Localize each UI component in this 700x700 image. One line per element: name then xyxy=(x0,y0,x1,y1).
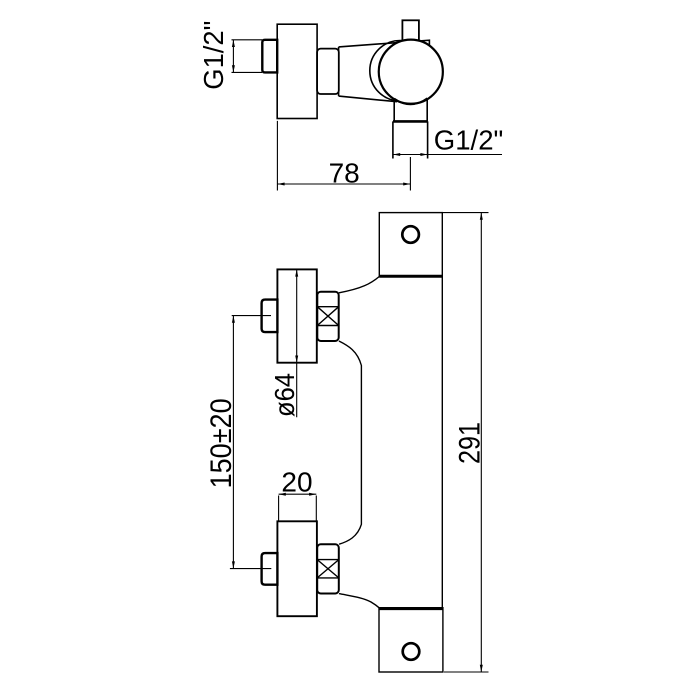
dimension 20: extension lines xyxy=(279,496,317,521)
lower handle (rect) xyxy=(277,521,317,616)
svg-text:20: 20 xyxy=(281,467,312,498)
dimension 291: extension lines xyxy=(442,213,488,672)
outlet pipe upper section xyxy=(394,99,427,121)
upper cartridge connector (hatched box) xyxy=(317,292,338,341)
dimension G1/2 left: dim line with arrows xyxy=(232,40,234,73)
dimension 78: dim line with arrows xyxy=(277,183,410,185)
body left outline lower curve xyxy=(339,594,379,608)
bottom mounting plate xyxy=(379,608,443,672)
top mounting plate xyxy=(379,213,442,277)
body right edge xyxy=(441,277,443,608)
dimension 150±20: dim line with arrows xyxy=(232,316,234,569)
dimension phi64: dim line with arrows xyxy=(296,269,298,417)
outlet pipe lower section xyxy=(393,121,428,158)
outlet pipe rim arc xyxy=(394,98,427,104)
lower cartridge connector (hatched box) xyxy=(317,544,339,593)
body left outline middle bar xyxy=(339,341,362,544)
outlet pipe collar line (thick) xyxy=(393,120,428,123)
upper handle (rect) xyxy=(277,269,316,362)
inlet connector (top view, thick) xyxy=(262,40,277,73)
top plate screw hole xyxy=(402,226,419,243)
dimension 20: dim line with arrows xyxy=(279,493,317,495)
upper inlet connector (thick) xyxy=(262,300,278,333)
bottom plate screw hole xyxy=(403,643,420,660)
diverter knob (large circle) xyxy=(379,40,443,104)
cartridge housing (rounded rect) xyxy=(317,49,339,94)
wall flange (side view rect) xyxy=(277,24,317,118)
body left outline upper curve xyxy=(339,277,379,293)
svg-text:150±20: 150±20 xyxy=(205,398,238,488)
dimension G1/2 left: extension lines xyxy=(232,40,263,73)
svg-text:291: 291 xyxy=(454,422,487,464)
svg-text:78: 78 xyxy=(329,157,360,188)
bottom plate thick top edge xyxy=(379,607,443,610)
cone end circle (crescent behind knob) xyxy=(370,40,430,100)
top plate thick bottom edge xyxy=(379,275,442,278)
svg-text:G1/2": G1/2" xyxy=(198,21,229,90)
lower inlet connector (thick) xyxy=(262,553,278,585)
valve body cone (trapezoid outline) xyxy=(339,40,430,101)
diverter stem (small rect above knob) xyxy=(402,20,419,42)
dimension 78: extension lines xyxy=(277,121,410,191)
dimension 150±20: extension lines xyxy=(230,316,271,569)
svg-text:G1/2": G1/2" xyxy=(434,125,504,156)
svg-text:ø64: ø64 xyxy=(269,373,300,417)
dimension G1/2 outlet: dim line with arrows xyxy=(393,154,502,156)
dimension 291: dim line with arrows xyxy=(480,213,482,672)
